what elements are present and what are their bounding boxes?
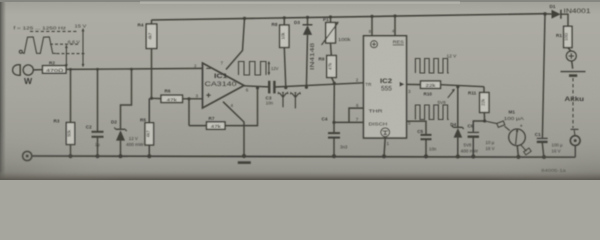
resistor R10 22k	[421, 81, 485, 88]
zener diode D4 5V8 400mW	[452, 87, 464, 157]
input terminal (left, ground)	[23, 151, 32, 160]
battery Akku	[561, 72, 586, 136]
battery minus terminal	[570, 136, 580, 157]
junction dots bottom rail	[68, 154, 546, 159]
diode D3 1N4148	[303, 17, 313, 87]
waveform annotation	[19, 28, 85, 67]
paper background	[0, 0, 600, 180]
555 pin 3 output wire	[407, 83, 421, 85]
scan edge shadows	[0, 0, 7, 180]
wire mic to R2	[33, 69, 42, 71]
resistor R5 vertical to ground	[145, 98, 154, 156]
555 pin 5 wire	[407, 121, 427, 134]
supply column down to C1	[542, 14, 545, 138]
square wave icon 12V at 555	[415, 59, 448, 74]
diode D1 1N4001	[545, 10, 568, 27]
wires to 555 pins 6,7	[334, 121, 364, 123]
ground bar	[238, 161, 251, 164]
capacitor C6 10u 16V	[468, 121, 485, 157]
junction dots top rail	[243, 12, 547, 20]
resistor R11 22k	[480, 87, 489, 121]
square wave icon at IC1 output	[239, 61, 271, 75]
meter M1 100uA	[485, 121, 532, 157]
resistor R4 vertical from top rail	[146, 20, 157, 98]
capacitor C5 10n	[421, 135, 432, 157]
top supply rail	[152, 14, 546, 20]
resistor R8 vertical from rail	[280, 18, 289, 88]
potentiometer P1 100k	[322, 17, 339, 56]
resistor R9 47k	[327, 56, 337, 84]
bottom ground rail	[32, 156, 576, 157]
signal wire R2 to IC1 pin2	[66, 68, 203, 69]
resistor R2 470 ohm	[43, 66, 67, 74]
resistor R3 vertical	[66, 69, 74, 156]
IC2 555	[364, 36, 407, 138]
capacitor C2	[92, 69, 104, 156]
555 pin 1 stub	[384, 138, 385, 156]
battery plus terminal	[566, 51, 576, 69]
zener diode D2 12V 400mW	[114, 69, 131, 156]
IC1 pin7 wire to rail	[226, 18, 245, 69]
microphone W	[13, 65, 34, 76]
probe electrodes	[277, 91, 300, 108]
timing node column to C4	[333, 84, 335, 123]
node divider junction to R6	[152, 97, 162, 99]
IC1 output wire pin6	[244, 86, 268, 87]
resistor R7 47k feedback	[189, 87, 258, 129]
capacitor C3 10n	[269, 81, 363, 94]
junction dots signal and node wires	[69, 68, 486, 124]
555 pin 8 stub	[371, 17, 373, 36]
resistor R1 10 ohm	[564, 26, 572, 51]
resistor R6 47k	[161, 95, 203, 102]
capacitor C4 3n3	[328, 122, 340, 156]
op-amp IC1 CA3140	[203, 63, 245, 108]
555 pin 4 stub	[394, 17, 396, 36]
capacitor C1 100u 16V	[537, 138, 548, 157]
square wave icon 5V8	[415, 89, 455, 120]
IC1 pin4 wire to ground	[223, 102, 244, 156]
